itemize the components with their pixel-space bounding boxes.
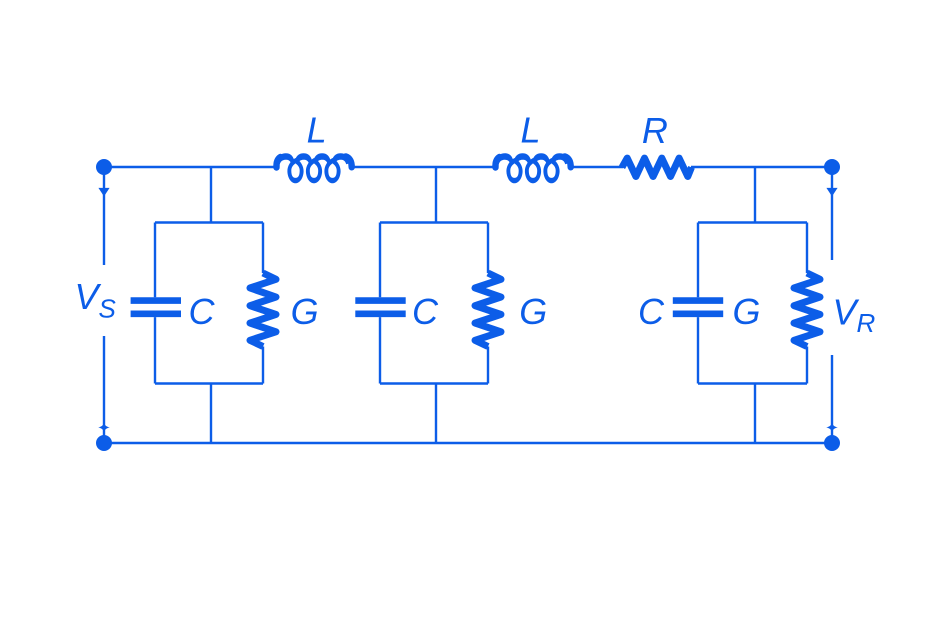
node bottom-right [824,435,840,451]
wire: branch from top rail to section-3 box [754,167,756,223]
node top-left [96,159,112,175]
wire: bottom rail [104,442,832,444]
svg-text:C: C [638,291,665,332]
svg-text:VS: VS [75,276,117,324]
arrow on VR branch (down) [826,188,837,197]
svg-text:C: C [189,291,216,332]
wire: left source branch upper [103,167,105,265]
section-2 box wiring [380,221,488,223]
wire: right load branch lower [831,355,833,443]
node top-right [824,159,840,175]
svg-text:L: L [520,110,540,151]
svg-text:R: R [642,110,668,151]
svg-text:G: G [291,291,319,332]
wire: branch from section-1 box to bottom rail [210,384,212,444]
wire: left source branch lower [103,336,105,443]
wire: top rail between L1 and L2 [352,166,496,168]
diamond marker above bottom-right node [826,423,838,432]
svg-text:C: C [412,291,439,332]
capacitor C (section 3) plates [673,297,723,304]
conductance G (section 3) zigzag [794,273,820,347]
wire: branch from section-2 box to bottom rail [435,384,437,444]
wire: branch from top rail to section-1 box [210,167,212,223]
capacitor C (section 2) plates [355,297,405,304]
svg-text:G: G [519,291,547,332]
conductance G (section 2) zigzag [475,273,501,347]
wire: branch from top rail to section-2 box [435,167,437,223]
svg-text:VR: VR [833,292,876,339]
resistor R zigzag [622,158,692,176]
wire: right load branch upper [831,167,833,260]
section-3 box wiring [698,221,807,223]
section-1 box wiring [155,221,263,223]
diamond marker above bottom-left node [98,423,110,432]
wire: top rail between L2 and R [571,166,623,168]
arrow on Vs branch (down) [98,188,109,197]
inductor L2 coil [495,157,499,168]
wire: top rail left segment [104,166,276,168]
conductance G (section 1) zigzag [250,273,276,347]
node bottom-left [96,435,112,451]
svg-text:L: L [307,110,327,151]
wire: top rail right segment [691,166,832,168]
capacitor C (section 1) plates [131,297,181,304]
inductor L1 coil [276,157,280,168]
wire: branch from section-3 box to bottom rail [754,384,756,444]
svg-text:G: G [732,291,760,332]
